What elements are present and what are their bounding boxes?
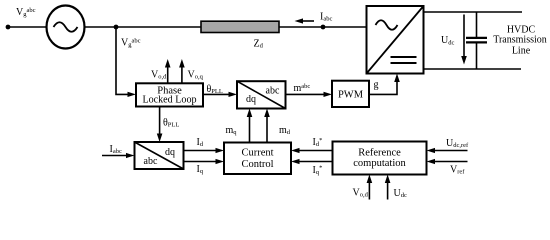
svg-text:computation: computation — [353, 158, 406, 169]
wire m_abc — [286, 93, 327, 95]
svg-text:Iq: Iq — [197, 164, 204, 175]
wire Vod input bottom — [368, 180, 370, 200]
svg-text:Id*: Id* — [313, 137, 323, 148]
wire g to converter — [369, 79, 397, 94]
svg-text:θPLL: θPLL — [207, 84, 223, 95]
wire source to converter — [85, 26, 367, 28]
impedance Zd — [201, 21, 279, 32]
arrow Vod out — [167, 66, 169, 84]
svg-text:Id: Id — [197, 137, 204, 148]
transform dq to abc — [237, 81, 286, 108]
svg-text:Vref: Vref — [450, 165, 465, 176]
PLL box — [136, 83, 203, 106]
svg-text:Iq*: Iq* — [313, 165, 323, 176]
wire Vref input — [432, 161, 468, 163]
wire Id_ref — [297, 150, 333, 152]
svg-text:Locked Loop: Locked Loop — [142, 95, 196, 106]
wire Id — [184, 150, 219, 152]
svg-text:Transmission: Transmission — [493, 35, 547, 46]
wire mq up — [249, 114, 251, 143]
wire Iq_ref — [297, 161, 333, 163]
svg-text:mq: mq — [226, 125, 238, 136]
wire thetaPLL to dq-abc — [203, 93, 231, 95]
svg-text:Vo,q: Vo,q — [188, 69, 204, 80]
svg-text:md: md — [279, 125, 291, 136]
current arrow Iabc — [301, 20, 314, 22]
svg-text:Iabc: Iabc — [110, 144, 122, 155]
svg-text:Udc,ref: Udc,ref — [446, 138, 469, 149]
svg-text:PWM: PWM — [338, 89, 364, 100]
transform abc to dq — [135, 142, 184, 169]
svg-text:dq: dq — [246, 94, 256, 105]
svg-text:abc: abc — [144, 156, 158, 167]
wire Iq — [184, 161, 219, 163]
svg-text:Vo,d: Vo,d — [353, 187, 369, 198]
wire thetaPLL down — [159, 107, 161, 139]
wire md up — [266, 114, 268, 143]
wire Iabc input — [102, 155, 129, 157]
svg-text:Udc: Udc — [394, 188, 407, 199]
svg-text:Vgabc: Vgabc — [121, 37, 141, 48]
svg-text:Zd: Zd — [254, 39, 264, 50]
svg-text:Reference: Reference — [358, 147, 401, 158]
converter U1 — [367, 6, 424, 74]
arrow Voq out — [181, 66, 183, 84]
Reference computation box — [333, 142, 427, 175]
node Iabc — [321, 25, 326, 30]
AC source G1 — [47, 6, 85, 49]
svg-text:abc: abc — [266, 85, 280, 96]
node Vg junction — [114, 25, 119, 30]
wire Vg junction to PLL — [116, 27, 130, 94]
voltage arrow Udc — [463, 15, 465, 59]
wire Udc input bottom — [387, 180, 389, 200]
svg-text:mabc: mabc — [294, 83, 311, 94]
Current Control box — [224, 143, 291, 175]
svg-text:Iabc: Iabc — [320, 12, 332, 23]
svg-text:Udc: Udc — [441, 35, 454, 46]
svg-text:dq: dq — [165, 147, 175, 158]
node grid terminal — [6, 25, 11, 30]
svg-text:Line: Line — [512, 46, 531, 57]
svg-text:Control: Control — [241, 159, 273, 170]
svg-text:Vgabc: Vgabc — [16, 7, 36, 18]
wire Udc_ref input — [432, 150, 468, 152]
PWM box — [332, 81, 369, 107]
svg-text:Vo,d: Vo,d — [151, 69, 167, 80]
capacitor Cdc — [476, 12, 478, 37]
wire DC positive — [424, 11, 523, 13]
wire terminal to source — [8, 26, 48, 28]
svg-text:θPLL: θPLL — [163, 118, 179, 129]
svg-text:g: g — [374, 80, 379, 91]
wire DC negative — [424, 68, 522, 70]
svg-text:Current: Current — [241, 147, 273, 158]
